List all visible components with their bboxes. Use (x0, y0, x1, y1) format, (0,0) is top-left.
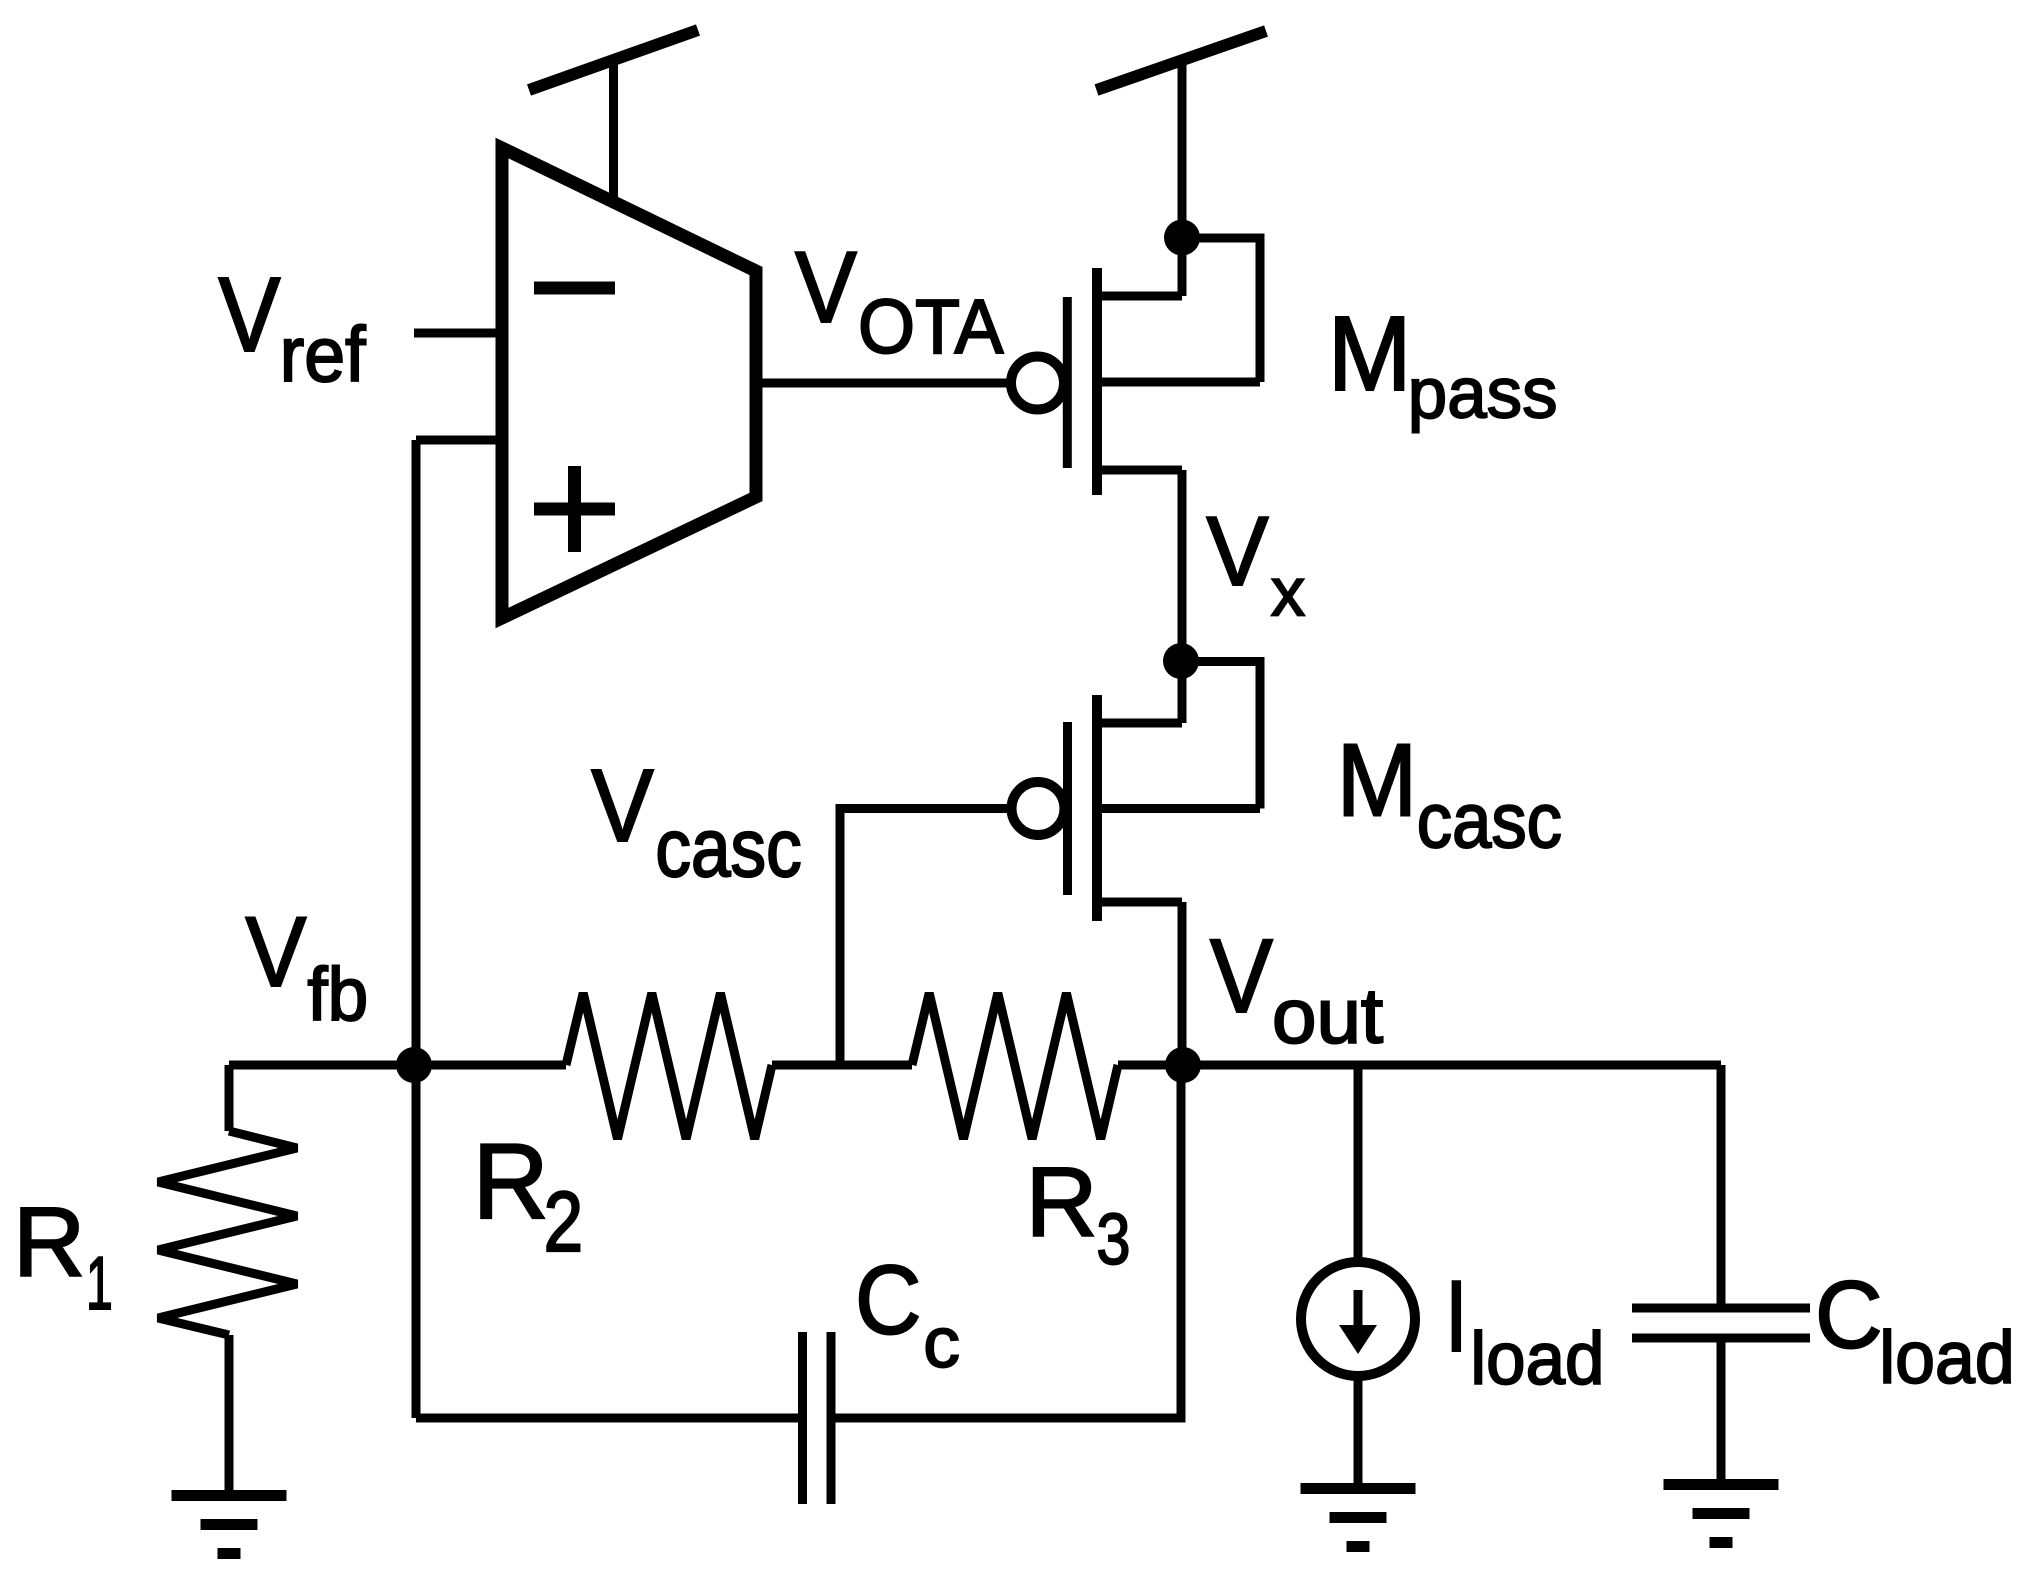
svg-text:casc: casc (1417, 777, 1562, 864)
svg-text:c: c (923, 1303, 960, 1383)
svg-text:1: 1 (86, 1242, 113, 1325)
svg-text:3: 3 (1096, 1199, 1130, 1280)
svg-text:M: M (1337, 724, 1418, 838)
svg-text:load: load (1470, 1318, 1604, 1401)
svg-text:C: C (855, 1246, 922, 1355)
svg-text:I: I (1445, 1259, 1468, 1373)
svg-text:pass: pass (1408, 353, 1558, 433)
svg-text:ref: ref (280, 311, 367, 398)
svg-text:V: V (218, 257, 280, 375)
svg-text:2: 2 (544, 1174, 583, 1270)
svg-text:V: V (245, 898, 306, 1008)
svg-text:R: R (13, 1187, 85, 1297)
svg-text:V: V (591, 748, 654, 863)
svg-text:C: C (1815, 1262, 1883, 1369)
svg-text:V: V (1210, 919, 1273, 1036)
svg-text:V: V (1206, 497, 1268, 607)
svg-text:V: V (795, 230, 857, 344)
svg-text:out: out (1272, 973, 1383, 1060)
svg-text:casc: casc (655, 802, 801, 894)
svg-text:load: load (1879, 1317, 2015, 1399)
svg-text:x: x (1271, 554, 1305, 631)
svg-text:OTA: OTA (858, 283, 1003, 369)
svg-text:M: M (1328, 294, 1412, 413)
svg-text:R: R (1026, 1147, 1098, 1258)
svg-text:fb: fb (307, 952, 368, 1036)
svg-text:R: R (473, 1122, 549, 1241)
